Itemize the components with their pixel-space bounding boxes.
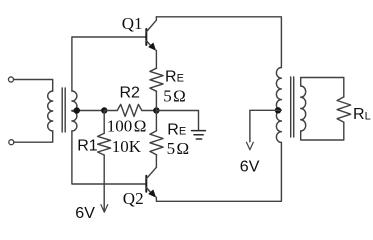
input terminal top (8, 77, 13, 82)
node T2 center tap (275, 107, 281, 113)
wire Q2 emitter to bottom rail (156, 142, 281, 201)
transformer T1 core (62, 88, 65, 132)
resistor RE upper (150, 68, 163, 91)
node center tap (74, 107, 80, 113)
wire node B to ground (156, 111, 198, 131)
transformer T2 primary (276, 68, 281, 143)
transformer T1 secondary (72, 91, 77, 131)
wire R2 to node B (142, 110, 157, 112)
wire T2 secondary to RL top (301, 78, 344, 97)
wire center tap (72, 110, 104, 112)
transistor Q1 (146, 17, 156, 51)
transistor Q2 (146, 167, 156, 197)
svg-text:Q2: Q2 (123, 189, 144, 208)
wire RE upper to node B (155, 91, 157, 110)
node B (153, 107, 159, 113)
wire top rail (156, 17, 281, 68)
wire T2 tap to 6V arrow (250, 110, 280, 142)
resistor R1 (98, 133, 111, 155)
resistor R2 (117, 104, 142, 116)
transformer T2 secondary (301, 86, 306, 131)
arrow 6V left (101, 205, 108, 213)
svg-text:RL: RL (353, 106, 371, 123)
wire input top (14, 80, 53, 92)
input terminal bottom (9, 140, 14, 145)
wire node B to RE lower (155, 111, 157, 131)
svg-text:5 Ω: 5 Ω (167, 139, 190, 158)
resistor RL (337, 97, 351, 122)
wire node A to R1 (103, 111, 105, 134)
svg-text:10K: 10K (112, 137, 142, 156)
wire RE lower to Q2 collector (155, 155, 157, 168)
wire secondary bottom to Q2 base (72, 131, 146, 184)
svg-text:R2: R2 (120, 85, 141, 102)
wire node A to R2 (104, 110, 117, 112)
ground (192, 131, 206, 139)
svg-text:RE: RE (165, 68, 184, 85)
svg-text:5 Ω: 5 Ω (163, 86, 186, 105)
wire input bottom (14, 131, 53, 142)
svg-text:R1: R1 (77, 137, 98, 154)
svg-text:100 Ω: 100 Ω (107, 116, 147, 135)
arrow 6V right (247, 142, 254, 150)
transformer T2 core (291, 77, 294, 137)
wire secondary top to Q1 base (72, 37, 146, 91)
svg-text:RE: RE (167, 121, 186, 138)
wire RL bottom to T2 secondary (301, 122, 344, 140)
svg-text:6V: 6V (240, 158, 260, 175)
svg-text:Q1: Q1 (122, 14, 143, 33)
resistor RE lower (150, 131, 163, 155)
wire Q1 emitter to RE (155, 50, 157, 68)
transformer T1 primary (48, 91, 53, 131)
wire R1 to 6V arrow (103, 155, 105, 211)
svg-text:6V: 6V (75, 205, 95, 222)
node A (101, 107, 107, 113)
